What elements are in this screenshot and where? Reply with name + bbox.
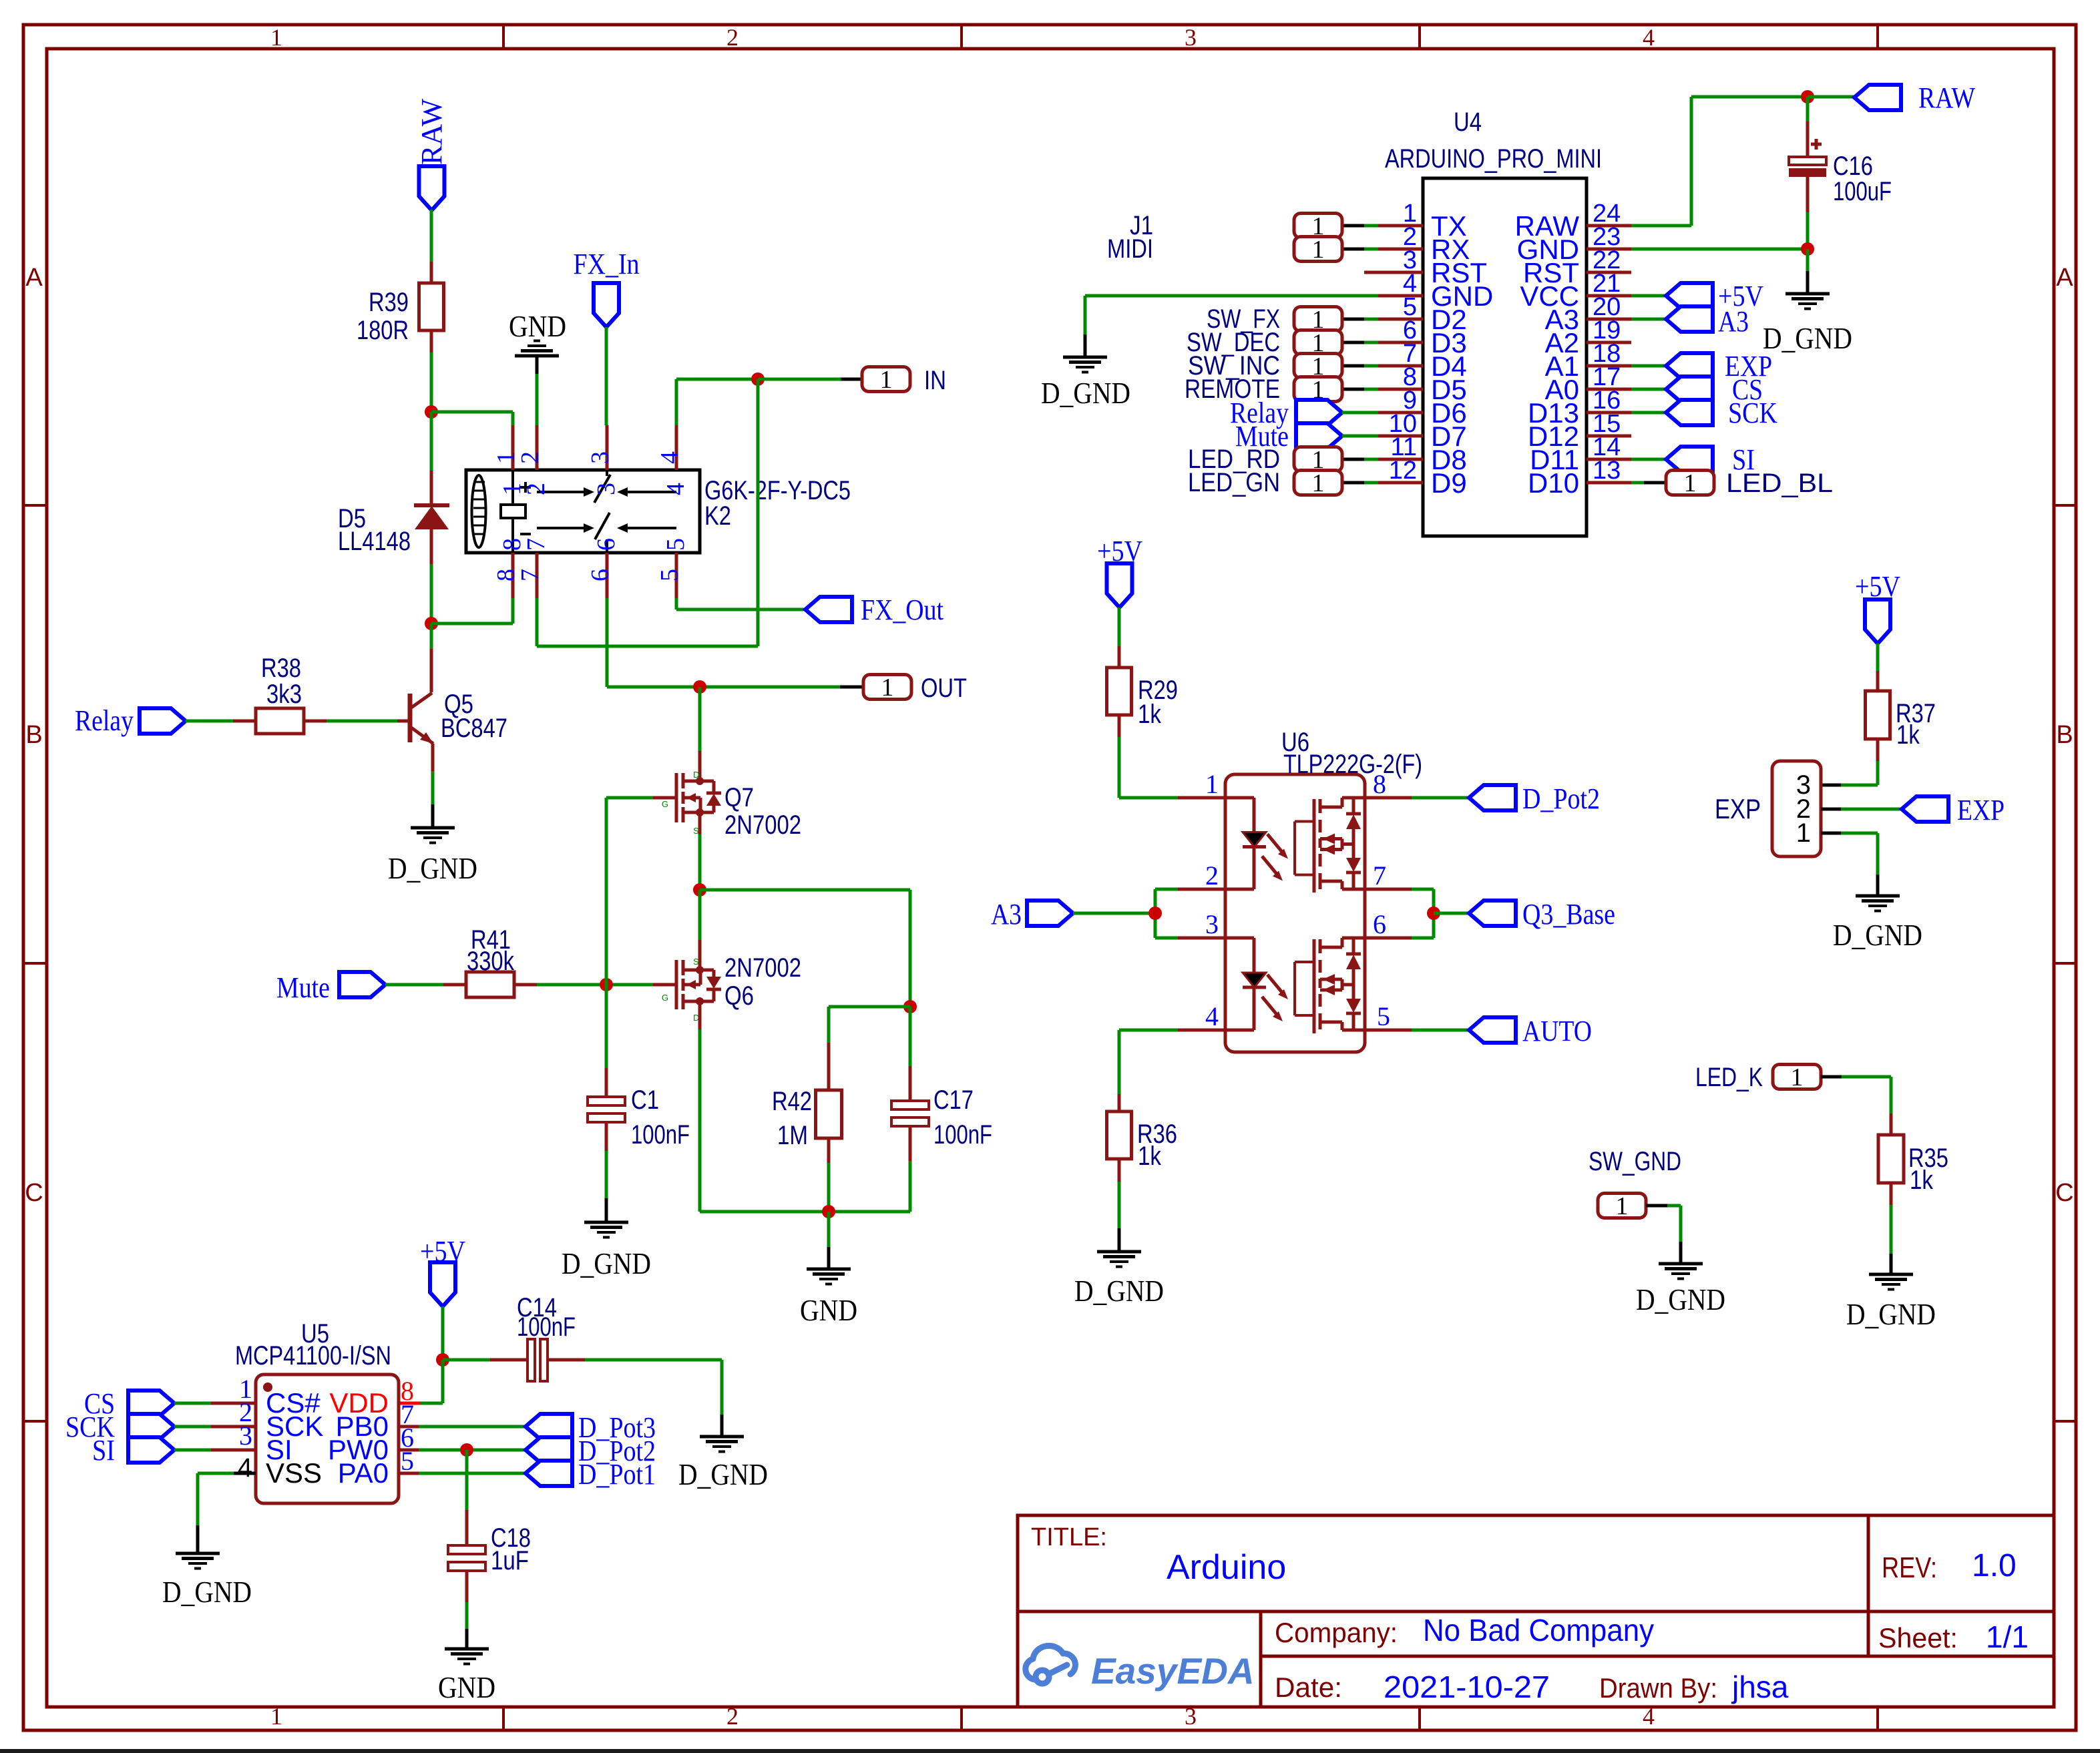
wire Q5 collector: [430, 623, 433, 649]
capacitor C1 100nF: [605, 1068, 608, 1097]
ground GND at C18: [445, 1648, 489, 1651]
svg-text:1.0: 1.0: [1972, 1548, 2017, 1583]
svg-text:1: 1: [1684, 469, 1697, 497]
svg-text:1: 1: [881, 674, 894, 702]
svg-text:Relay: Relay: [75, 704, 134, 737]
svg-text:D_GND: D_GND: [1041, 376, 1130, 410]
svg-text:3: 3: [586, 451, 614, 464]
capacitor C16 100uF (polarized): [1806, 97, 1810, 121]
ground GND at R42/C17: [827, 1212, 831, 1247]
title block divider rev column: [1867, 1515, 1870, 1656]
relay K2 contact A (pins 2-3-4): [537, 491, 585, 493]
svg-text:VSS: VSS: [266, 1457, 322, 1489]
junction Q7/Q6 sources: [693, 883, 706, 897]
wire +5V to R29: [1118, 607, 1121, 646]
svg-text:1: 1: [1205, 769, 1219, 799]
connector LED_BL at U4 D10: [1631, 481, 1644, 485]
wire R41 to gate node: [537, 983, 606, 987]
capacitor C17 100nF: [909, 1007, 912, 1066]
wire K2 pin 6 to OUT: [606, 598, 609, 687]
svg-text:REV:: REV:: [1882, 1551, 1937, 1584]
svg-text:330k: 330k: [467, 947, 515, 976]
svg-text:100nF: 100nF: [517, 1312, 576, 1342]
svg-text:Q7: Q7: [724, 783, 754, 812]
svg-text:100nF: 100nF: [933, 1120, 992, 1150]
transistor Q7 2N7002 (NMOS): [698, 751, 702, 781]
relay K2 G6K-2F-Y-DC5 body: [466, 470, 700, 553]
title block divider below title: [1018, 1610, 2054, 1613]
wire U6 pins 7/6 to Q3_Base: [1412, 888, 1434, 891]
title block divider logo column: [1259, 1611, 1263, 1707]
svg-text:4: 4: [1643, 24, 1655, 51]
svg-text:D_Pot1: D_Pot1: [578, 1458, 656, 1491]
wire Q5 emitter to ground: [431, 771, 435, 804]
ground bus wire: [700, 1210, 910, 1214]
wire gate node vertical: [605, 798, 608, 985]
wire Relay flag to R38: [186, 720, 233, 723]
relay K2 coil: [472, 475, 486, 547]
resistor R38 3k3: [233, 720, 256, 723]
svg-text:Q6: Q6: [724, 981, 754, 1011]
svg-text:MCP41100-I/SN: MCP41100-I/SN: [235, 1341, 391, 1370]
junction OUT/Q7 drain: [693, 680, 706, 694]
resistor R35 1k: [1890, 1113, 1893, 1135]
wire EXP connector pin 1 to ground: [1821, 832, 1841, 835]
svg-text:C: C: [2055, 1179, 2073, 1207]
row ruler ticks: [23, 504, 47, 507]
svg-text:1: 1: [1616, 1192, 1629, 1220]
svg-text:SCK: SCK: [1728, 397, 1777, 429]
wire Q7 gate: [606, 796, 653, 800]
wire LED_K to R35: [1821, 1075, 1842, 1079]
svg-text:EXP: EXP: [1715, 793, 1761, 824]
svg-text:K2: K2: [704, 501, 731, 531]
wire R37 to EXP connector pin 3: [1876, 761, 1880, 785]
svg-text:D9: D9: [1431, 467, 1467, 499]
svg-text:EXP: EXP: [1957, 794, 2005, 826]
svg-text:180R: 180R: [357, 316, 409, 345]
wire FX_In to K2 pin 3: [605, 327, 608, 425]
wire U4 GND pin 4 to ground: [1085, 294, 1378, 298]
IC U5 MCP41100-I/SN body: [256, 1374, 399, 1503]
svg-text:A: A: [2056, 264, 2073, 292]
port OUT: [840, 686, 863, 689]
port IN: [758, 378, 841, 381]
net flag SI at U4 D11: [1631, 458, 1666, 461]
relay K2 contact B (pins 7-6-5): [537, 527, 585, 529]
svg-text:1M: 1M: [777, 1121, 808, 1150]
svg-text:A3: A3: [1718, 305, 1749, 338]
svg-text:IN: IN: [924, 366, 946, 395]
title block frame: [1018, 1515, 2054, 1707]
U6 optocoupler channel 1 (LED + photoMOS): [1226, 796, 1254, 800]
svg-text:D_GND: D_GND: [1846, 1297, 1936, 1331]
svg-text:PA0: PA0: [338, 1457, 389, 1489]
svg-text:5: 5: [662, 538, 690, 551]
wire C18 to ground: [465, 1602, 469, 1629]
wire VDD pin 8 (red power pin): [399, 1402, 421, 1405]
svg-text:3: 3: [1205, 909, 1219, 939]
svg-text:5: 5: [1377, 1001, 1390, 1031]
relay K2 pin stubs: [511, 425, 515, 470]
ground D_GND at C14: [700, 1435, 744, 1439]
svg-text:ARDUINO_PRO_MINI: ARDUINO_PRO_MINI: [1385, 144, 1602, 174]
svg-text:D_GND: D_GND: [162, 1575, 252, 1609]
wire Q6 drain to ground bus: [698, 1029, 702, 1212]
svg-text:TLP222G-2(F): TLP222G-2(F): [1283, 750, 1422, 779]
resistor R29 1k: [1118, 646, 1121, 668]
svg-text:4: 4: [1205, 1001, 1219, 1031]
svg-text:R38: R38: [261, 654, 301, 683]
ground D_GND at Q5 emitter: [411, 826, 455, 830]
wire A3 to U6 pins 2/3: [1073, 912, 1155, 915]
svg-text:D_GND: D_GND: [388, 851, 477, 885]
svg-text:1: 1: [1791, 1063, 1804, 1091]
svg-text:D_GND: D_GND: [1636, 1282, 1725, 1316]
junction R39/D5/K2-pin1: [425, 405, 438, 419]
junction D5/K2-pin8/Q5: [425, 617, 438, 630]
U4 right pin stubs: [1587, 224, 1631, 228]
svg-text:D_GND: D_GND: [1833, 918, 1922, 952]
svg-text:B: B: [25, 721, 42, 749]
svg-text:LED_GN: LED_GN: [1188, 468, 1280, 497]
wire +5V to VDD/C14 junction: [441, 1306, 445, 1360]
wire junction to K2 pin 1: [431, 411, 513, 414]
net flag EXP at connector pin 2: [1821, 808, 1841, 811]
svg-text:S: S: [693, 957, 699, 967]
IC U6 TLP222G-2(F) body: [1225, 774, 1365, 1052]
junction +5V/VDD/C14: [436, 1353, 449, 1366]
svg-text:12: 12: [1389, 457, 1417, 485]
junction RAW net: [1801, 90, 1814, 103]
svg-text:BC847: BC847: [441, 714, 507, 743]
svg-text:C1: C1: [631, 1085, 659, 1115]
junction ground bus: [822, 1205, 835, 1218]
net flag SCK at U4 D13: [1631, 411, 1666, 415]
svg-text:A: A: [25, 264, 43, 292]
svg-text:7: 7: [1373, 860, 1386, 891]
ground D_GND at C1: [584, 1221, 628, 1224]
svg-text:7: 7: [522, 538, 550, 551]
junction gate node (R41/Q6/Q7/C1): [600, 978, 613, 991]
svg-text:RAW: RAW: [1918, 81, 1975, 114]
svg-text:Q3_Base: Q3_Base: [1522, 898, 1615, 931]
transistor Q6 2N7002 (NMOS, flipped): [698, 890, 702, 940]
svg-text:MIDI: MIDI: [1107, 234, 1153, 264]
svg-text:1uF: 1uF: [491, 1546, 529, 1575]
wire SW_GND to ground: [1646, 1204, 1667, 1208]
svg-text:FX_Out: FX_Out: [861, 593, 943, 626]
ground D_GND at U4 pin 4: [1063, 356, 1107, 359]
net flag +5V at U4 VCC: [1631, 294, 1666, 298]
svg-text:1: 1: [270, 24, 282, 51]
wire R29 to U6 pin 1: [1118, 737, 1121, 798]
column ruler ticks: [502, 25, 505, 49]
svg-text:3: 3: [592, 483, 620, 495]
svg-text:A3: A3: [991, 898, 1022, 931]
wire Mute to R41: [385, 983, 443, 987]
svg-text:3: 3: [239, 1421, 252, 1451]
wire RAW to R39: [430, 210, 433, 262]
svg-text:3k3: 3k3: [266, 680, 302, 709]
capacitor C14 100nF: [443, 1358, 490, 1362]
svg-text:LL4148: LL4148: [338, 527, 411, 556]
svg-text:Company:: Company:: [1275, 1617, 1398, 1648]
svg-text:Drawn By:: Drawn By:: [1599, 1672, 1717, 1704]
svg-text:2: 2: [522, 483, 550, 495]
svg-text:SI: SI: [92, 1434, 115, 1467]
wire C1 to ground: [605, 1151, 608, 1198]
svg-text:EasyEDA: EasyEDA: [1091, 1650, 1255, 1692]
ground D_GND at U5 VSS: [176, 1552, 220, 1555]
wire Q6 gate: [606, 983, 653, 987]
svg-text:6: 6: [592, 538, 620, 551]
svg-text:GND: GND: [800, 1293, 857, 1327]
svg-text:6: 6: [1373, 909, 1386, 939]
ground D_GND at R35: [1890, 1205, 1893, 1254]
svg-text:1: 1: [880, 366, 893, 394]
svg-text:D_GND: D_GND: [562, 1246, 651, 1280]
net flag D_Pot2 at U5 PW0: [399, 1449, 419, 1452]
connector EXP body: [1772, 761, 1821, 856]
junction C16/GND net: [1801, 242, 1814, 256]
svg-text:6: 6: [586, 569, 614, 581]
svg-text:D_GND: D_GND: [678, 1457, 768, 1491]
svg-text:4: 4: [662, 483, 690, 495]
svg-text:OUT: OUT: [921, 674, 967, 703]
transistor Q5 BC847 (NPN): [397, 720, 410, 723]
svg-text:D: D: [693, 770, 699, 780]
svg-text:2N7002: 2N7002: [724, 810, 801, 840]
svg-text:2: 2: [516, 451, 544, 464]
svg-text:G: G: [662, 799, 668, 809]
svg-text:3: 3: [1185, 24, 1197, 51]
svg-text:RAW: RAW: [415, 98, 448, 165]
svg-text:1: 1: [1796, 818, 1811, 848]
svg-text:Arduino: Arduino: [1167, 1548, 1286, 1587]
net flag RAW (right): [1808, 95, 1854, 99]
wire sources to R42/C17 node: [700, 889, 910, 892]
capacitor C18 1uF: [465, 1450, 469, 1510]
svg-text:D10: D10: [1528, 467, 1579, 499]
svg-text:G: G: [662, 993, 668, 1003]
U4 left pin stubs: [1378, 224, 1423, 228]
svg-text:4: 4: [656, 451, 684, 464]
wire C14 to ground: [585, 1358, 722, 1362]
svg-text:R42: R42: [772, 1087, 812, 1116]
svg-text:C17: C17: [933, 1085, 974, 1115]
wire IN net down to K2 pin 7: [757, 379, 760, 646]
relay K2 coil pin1-pin8 internal link and armature: [511, 470, 514, 505]
svg-text:2: 2: [726, 1703, 739, 1730]
svg-text:B: B: [2056, 721, 2073, 749]
U5 left pin stubs: [211, 1402, 256, 1405]
svg-text:1k: 1k: [1910, 1166, 1934, 1195]
EasyEDA logo: [1026, 1646, 1076, 1684]
U6 pin stubs: [1178, 796, 1226, 800]
net flag D_Pot3 at U5 PB0: [399, 1425, 419, 1429]
svg-text:1k: 1k: [1138, 1142, 1162, 1171]
svg-text:R39: R39: [369, 288, 409, 317]
wire +5V to R37: [1876, 644, 1880, 671]
wire OUT junction to Q7 drain: [698, 687, 702, 751]
svg-text:D_GND: D_GND: [1074, 1274, 1164, 1308]
svg-text:LED_K: LED_K: [1695, 1063, 1763, 1092]
svg-text:100nF: 100nF: [631, 1120, 690, 1150]
wire Q7 source to junction: [698, 834, 702, 890]
wire U6 pin 4 to R36: [1119, 1029, 1178, 1032]
ground D_GND at SW_GND: [1659, 1262, 1703, 1266]
window bottom bar: [0, 1749, 2100, 1753]
wire R38 to Q5 base: [327, 720, 397, 723]
svg-text:4: 4: [238, 1453, 252, 1483]
svg-text:jhsa: jhsa: [1731, 1670, 1789, 1704]
resistor R42 1M: [829, 1005, 910, 1009]
diode D5 LL4148: [430, 412, 433, 471]
svg-text:C: C: [25, 1179, 43, 1207]
net flag CS at U4 A0: [1631, 388, 1666, 391]
svg-text:8: 8: [1373, 769, 1386, 799]
svg-text:GND: GND: [438, 1670, 495, 1704]
svg-text:D_GND: D_GND: [1763, 321, 1852, 355]
net flag EXP at U4 A1: [1631, 364, 1666, 368]
svg-text:2: 2: [1205, 860, 1219, 891]
wire U4 RAW pin 24 net: [1631, 224, 1691, 228]
ground D_GND at R36: [1118, 1182, 1121, 1228]
resistor R36 1k: [1118, 1094, 1121, 1111]
svg-text:TITLE:: TITLE:: [1031, 1523, 1107, 1551]
svg-text:U4: U4: [1454, 107, 1482, 137]
svg-text:GND: GND: [509, 309, 566, 343]
wire U4 GND pin 23: [1631, 248, 1808, 251]
svg-text:100uF: 100uF: [1833, 177, 1892, 206]
net flag D_Pot1 at U5 PA0: [399, 1472, 419, 1475]
wire VSS pin 4 to ground: [198, 1472, 234, 1475]
net flag Q3_Base: [1434, 912, 1469, 915]
wire K2 pin 4 to IN net: [675, 379, 678, 425]
svg-text:1k: 1k: [1896, 720, 1920, 750]
svg-text:D_Pot2: D_Pot2: [1522, 782, 1600, 815]
resistor R41 330k: [443, 983, 466, 987]
svg-text:13: 13: [1593, 457, 1621, 485]
svg-text:1/1: 1/1: [1986, 1619, 2029, 1654]
ground D_GND at EXP pin 1: [1856, 895, 1900, 898]
svg-text:Sheet:: Sheet:: [1878, 1622, 1958, 1654]
svg-text:2N7002: 2N7002: [724, 953, 801, 983]
svg-text:1: 1: [1312, 236, 1325, 264]
svg-text:SW_GND: SW_GND: [1589, 1147, 1681, 1176]
ground GND at K2 pin 2: [536, 374, 539, 425]
wire R39 to junction: [430, 352, 433, 412]
IC U4 ARDUINO_PRO_MINI body: [1423, 178, 1587, 536]
svg-text:2021-10-27: 2021-10-27: [1384, 1670, 1550, 1704]
junction R42/C17 top node: [903, 1000, 917, 1013]
net flag D_Pot2 at U6 pin 8: [1412, 796, 1469, 800]
svg-text:1k: 1k: [1138, 700, 1162, 729]
svg-text:5: 5: [656, 569, 684, 581]
resistor R39 180R: [430, 262, 433, 283]
svg-text:1: 1: [270, 1703, 282, 1730]
svg-text:FX_In: FX_In: [574, 248, 640, 280]
svg-text:LED_BL: LED_BL: [1726, 469, 1833, 498]
title block divider company/date: [1261, 1655, 2054, 1658]
wire junction to K2 pin 8: [431, 622, 513, 625]
junction Q3_Base net: [1427, 907, 1440, 920]
svg-text:Mute: Mute: [276, 971, 330, 1004]
ground D_GND at C16: [1806, 249, 1810, 271]
svg-text:No Bad Company: No Bad Company: [1423, 1613, 1654, 1648]
net flag AUTO at U6 pin 5: [1412, 1029, 1469, 1032]
junction PW0/C18: [460, 1443, 473, 1457]
net flag FX_Out: [675, 598, 678, 609]
svg-text:AUTO: AUTO: [1522, 1015, 1592, 1047]
svg-text:7: 7: [516, 569, 544, 581]
svg-text:Date:: Date:: [1275, 1672, 1342, 1703]
resistor R37 1k: [1876, 671, 1880, 691]
U6 optocoupler channel 2 (LED + photoMOS): [1226, 937, 1254, 940]
junction A3 net: [1148, 907, 1162, 920]
svg-text:1: 1: [1312, 469, 1325, 497]
junction IN net: [751, 372, 765, 386]
svg-text:2: 2: [726, 24, 739, 51]
net flag A3 at U4 pin 20: [1631, 318, 1666, 321]
